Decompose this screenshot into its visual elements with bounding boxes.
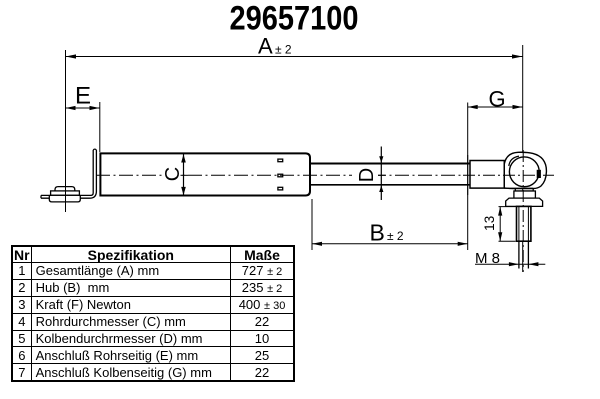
dimension line C (tube diameter) [183, 154, 185, 196]
svg-text:± 2: ± 2 [387, 229, 404, 243]
stud vertical centre line (over fitting) [522, 150, 524, 272]
stud lower cylinder left line [518, 241, 520, 268]
thread inner line right [527, 206, 529, 241]
arrow E left [66, 106, 76, 110]
svg-text:G: G [489, 87, 506, 112]
svg-text:A: A [258, 33, 273, 58]
rubber buffer top cap [55, 187, 75, 191]
arrow 13 bottom [498, 232, 502, 241]
dimension line B [312, 243, 468, 245]
arrow C bottom [181, 187, 186, 195]
horizontal centre line over rod end fitting [463, 174, 554, 176]
ball socket inner ball [509, 157, 539, 187]
arrow D top [379, 156, 383, 163]
svg-text:E: E [75, 83, 91, 110]
extension line G/B shared (rod end) [467, 103, 469, 251]
extension line right (ball stud centre) [522, 45, 524, 272]
rubber buffer bottom tier [49, 195, 80, 202]
bracket flange left end cap [40, 195, 42, 198]
svg-text:D: D [356, 168, 378, 182]
threaded section outer [517, 206, 531, 241]
extension line E right (tube end) [99, 102, 101, 152]
arrow B right [458, 242, 468, 246]
centre line dash at D crossing [378, 174, 386, 176]
dimension line D (rod diameter) [380, 147, 382, 201]
specification table [11, 245, 295, 382]
svg-text:13: 13 [482, 216, 497, 231]
stud collar [514, 191, 536, 198]
stud lower cylinder right line [527, 241, 529, 268]
crimp mark middle [278, 174, 283, 177]
mounting bracket vertical sheet [41, 150, 96, 198]
stud neck [515, 189, 533, 192]
centre line dash at C crossing [181, 174, 189, 176]
extension line B left (tube end) [311, 199, 313, 250]
arrow M8 left [509, 262, 519, 266]
eyelet centre line through buffer [65, 183, 67, 212]
piston rod top line [311, 163, 471, 165]
arrow C top [181, 154, 186, 162]
dimension line A [66, 56, 523, 58]
label C background mask [162, 167, 181, 183]
stud flange [506, 198, 543, 206]
thread inner line left [518, 206, 520, 241]
label D background mask [352, 167, 378, 183]
piston rod bottom line [311, 184, 471, 186]
dimension 13 extension top [499, 206, 516, 208]
rod end extension line over sleeve [467, 155, 469, 195]
arrow G right [513, 105, 523, 109]
arrow A right [512, 54, 523, 58]
rubber buffer middle tier [51, 191, 80, 195]
arrow B left [312, 242, 322, 246]
extension line left (eyelet centre) [65, 50, 67, 212]
centre line (dash-dot) [96, 174, 463, 176]
svg-text:C: C [162, 167, 184, 181]
dimension line G [468, 106, 523, 108]
arrow A left [66, 54, 77, 58]
svg-text:29657100: 29657100 [230, 0, 359, 38]
arrow D bottom [379, 186, 383, 193]
dimension line M8 [475, 263, 545, 265]
rod end sleeve [470, 161, 504, 189]
ball socket bottom line [504, 187, 533, 189]
arrow E right [90, 106, 100, 110]
ball socket slot (filled) [537, 170, 541, 178]
dimension line 13 [499, 207, 501, 242]
arrow 13 top [498, 207, 502, 216]
crimp mark top [278, 159, 283, 162]
cylinder tube [100, 153, 310, 195]
svg-text:B: B [370, 220, 385, 246]
bracket sheet top cap [93, 148, 96, 151]
svg-text:± 2: ± 2 [275, 43, 292, 57]
crimp mark bottom [278, 187, 283, 190]
arrow G left [468, 105, 478, 109]
dimension 13 extension bottom [499, 240, 516, 242]
dimension line E [66, 107, 100, 109]
ball socket housing outer [504, 152, 546, 188]
arrow M8 right [528, 262, 538, 266]
ball socket inner top arc [509, 156, 519, 166]
